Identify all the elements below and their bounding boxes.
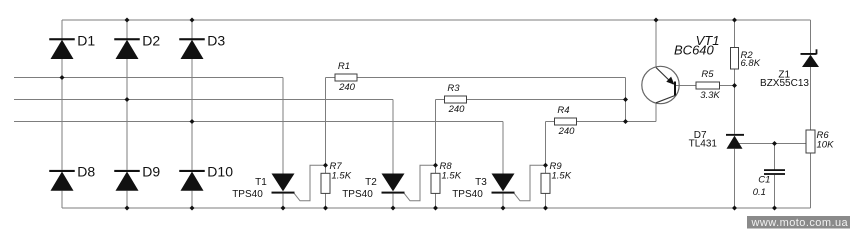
svg-text:BZX55C13: BZX55C13: [760, 78, 809, 89]
svg-text:1.5K: 1.5K: [442, 171, 462, 182]
svg-text:6.8K: 6.8K: [741, 58, 761, 69]
svg-text:BC640: BC640: [674, 43, 715, 58]
svg-text:TL431: TL431: [689, 139, 718, 150]
svg-text:TPS40: TPS40: [452, 189, 483, 200]
svg-text:240: 240: [558, 126, 576, 137]
svg-text:D9: D9: [142, 164, 160, 180]
svg-text:T2: T2: [365, 177, 377, 188]
svg-text:TPS40: TPS40: [232, 189, 263, 200]
svg-text:240: 240: [338, 82, 356, 93]
svg-text:3.3K: 3.3K: [700, 90, 720, 101]
svg-text:T1: T1: [255, 177, 267, 188]
svg-text:240: 240: [448, 104, 466, 115]
svg-text:10K: 10K: [817, 139, 835, 150]
svg-text:R3: R3: [447, 83, 460, 94]
svg-text:TPS40: TPS40: [342, 189, 373, 200]
svg-text:1.5K: 1.5K: [332, 171, 352, 182]
svg-text:D10: D10: [207, 164, 233, 180]
svg-text:D3: D3: [207, 32, 225, 48]
svg-text:D1: D1: [77, 32, 95, 48]
svg-text:www.moto.com.ua: www.moto.com.ua: [751, 217, 849, 229]
svg-text:R4: R4: [557, 105, 569, 116]
svg-text:R1: R1: [338, 61, 350, 72]
svg-text:R5: R5: [701, 69, 714, 80]
svg-text:1.5K: 1.5K: [552, 171, 572, 182]
svg-text:C1: C1: [758, 174, 770, 185]
svg-text:0.1: 0.1: [753, 187, 766, 198]
svg-text:T3: T3: [475, 177, 487, 188]
svg-text:D2: D2: [142, 32, 160, 48]
svg-text:D8: D8: [77, 164, 95, 180]
